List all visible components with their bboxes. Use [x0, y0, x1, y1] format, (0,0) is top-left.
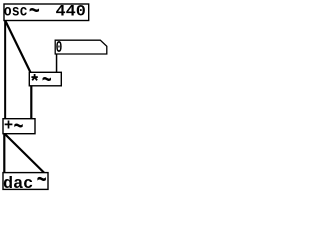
object box osc~ 440	[4, 4, 89, 21]
object box +~	[3, 119, 35, 134]
svg-text:~: ~	[14, 115, 24, 142]
svg-text:~: ~	[29, 0, 40, 26]
wire osc~ outlet to *~ left inlet	[5, 21, 31, 74]
label * (of *~) drawn as 5-arm asterisk	[31, 74, 37, 80]
wire +~ outlet to dac~ left inlet	[3, 133, 5, 174]
wire osc~ outlet to +~ left inlet	[4, 20, 6, 120]
svg-text:440: 440	[56, 3, 86, 20]
svg-text:~: ~	[42, 68, 52, 95]
object box dac~	[3, 173, 48, 190]
svg-text:~: ~	[37, 166, 47, 196]
number box 0	[55, 40, 107, 54]
svg-text:+: +	[4, 117, 13, 135]
svg-text:0: 0	[56, 39, 63, 58]
wire +~ outlet to dac~ right inlet	[5, 134, 45, 173]
object box *~	[29, 72, 61, 86]
wire number box outlet to *~ right inlet	[56, 54, 58, 73]
wire *~ outlet to +~ right inlet	[30, 85, 32, 120]
svg-text:dac: dac	[3, 175, 33, 194]
svg-text:osc: osc	[4, 4, 28, 21]
